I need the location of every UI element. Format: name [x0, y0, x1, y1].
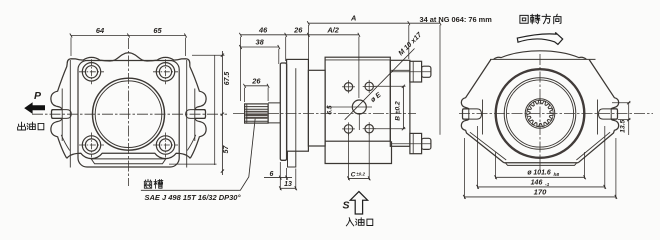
- dim ø101.6 ext: [464, 126, 616, 199]
- right view chamfer inner lines: [470, 132, 610, 160]
- right view ear depth lines: [483, 100, 598, 135]
- dim ø101.6 line: [496, 176, 585, 178]
- inlet S arrow: [350, 192, 367, 215]
- mid dims ext lines: [241, 25, 359, 102]
- svg-text:6.5: 6.5: [327, 105, 334, 114]
- gear body top cap line: [325, 59, 390, 61]
- right ear slot lines: [463, 109, 618, 119]
- svg-text:SAE J 498 15T 16/32 DP30°: SAE J 498 15T 16/32 DP30°: [145, 193, 242, 202]
- port circle: [352, 100, 366, 114]
- right view outline right: [578, 60, 618, 163]
- svg-text:6: 6: [270, 171, 274, 178]
- left view body square: [78, 61, 179, 168]
- left view flange right ear: [190, 67, 206, 159]
- right view h centerline: [459, 113, 653, 115]
- right view bottom pad: [505, 163, 577, 166]
- projection line right of left view: [214, 56, 216, 166]
- front housing lower step: [288, 151, 296, 167]
- svg-text:h8: h8: [554, 172, 560, 178]
- dim 38 line: [241, 46, 279, 48]
- shaft neck: [268, 103, 280, 123]
- neck section: [308, 70, 325, 146]
- svg-text:13.5: 13.5: [620, 119, 627, 132]
- spline bore teeth: [527, 100, 553, 126]
- port hole bottom-left: [344, 125, 352, 133]
- pilot circle thick: [496, 69, 585, 158]
- port hole top-left: [344, 83, 352, 91]
- bolt hole bottom-left: [82, 136, 100, 154]
- right view bottom flat: [504, 162, 578, 164]
- svg-text:P: P: [34, 90, 42, 102]
- dim 64/65 line: [71, 35, 186, 37]
- rear bolt bottom: [410, 133, 422, 153]
- left view flange left side + ear: [51, 64, 67, 159]
- svg-text:46: 46: [258, 25, 268, 34]
- svg-text:38: 38: [255, 38, 264, 47]
- inner circle 2: [506, 80, 573, 147]
- left view flange top edge: [67, 53, 190, 67]
- svg-text:57: 57: [223, 145, 230, 154]
- big pilot circle: [93, 78, 165, 150]
- dim 46/26/A2 line: [241, 34, 359, 36]
- suction port boss: [325, 141, 391, 163]
- svg-text:ø 101.6: ø 101.6: [527, 170, 551, 177]
- middle view centerline: [233, 112, 416, 114]
- rotation arrow: [517, 32, 562, 44]
- svg-text:65: 65: [153, 26, 162, 35]
- spline hub circle: [525, 99, 555, 129]
- svg-text:13: 13: [284, 181, 292, 188]
- svg-text:26: 26: [293, 25, 303, 34]
- bolt hole bottom-right: [156, 136, 174, 154]
- dim 146 line: [478, 186, 605, 188]
- dim 6 line: [264, 177, 292, 179]
- svg-text:C: C: [351, 171, 356, 178]
- left view ear slot right: [186, 110, 206, 119]
- A right ext: [408, 25, 410, 59]
- 6/13 ext lines: [280, 162, 296, 190]
- port hole bottom-right: [365, 125, 373, 133]
- svg-text:26: 26: [251, 76, 261, 85]
- right view shoulder line: [490, 58, 596, 60]
- M10 leader line: [345, 49, 415, 120]
- dim 13.5: [612, 103, 630, 135]
- dim 26 spline line: [245, 85, 269, 87]
- svg-text:34 at NG 064: 76 mm: 34 at NG 064: 76 mm: [420, 15, 493, 24]
- dim 64 ext lines: [70, 38, 72, 57]
- dim 67.5/57 line: [221, 51, 223, 175]
- bolt hole top-left: [82, 63, 100, 81]
- svg-text:B ±0.2: B ±0.2: [394, 101, 401, 121]
- gear body: [325, 57, 390, 141]
- left view ear slot left: [52, 110, 72, 119]
- front housing: [287, 59, 309, 151]
- right view top hump: [494, 51, 587, 60]
- front housing inner line: [295, 68, 297, 151]
- left view bottom pad plate: [91, 159, 166, 164]
- label 齒槽: [144, 179, 152, 188]
- port P arrow: [24, 102, 45, 114]
- rear cover top line: [390, 69, 410, 71]
- C ext lines: [349, 115, 370, 181]
- svg-text:67.5: 67.5: [224, 72, 231, 86]
- port circle h-line: [326, 106, 372, 108]
- dim 13 line: [280, 187, 296, 189]
- spline note underline + leader: [141, 116, 256, 191]
- 34 ext vertical: [439, 25, 441, 135]
- rear bolt top: [410, 61, 422, 82]
- left view horizontal centerline: [32, 113, 227, 115]
- left view inner chamfer lines: [61, 135, 196, 151]
- svg-text:64: 64: [96, 26, 104, 35]
- dim 170 line: [464, 196, 616, 198]
- svg-text:A: A: [350, 14, 356, 23]
- rear cover: [390, 60, 410, 146]
- svg-text:±0.2: ±0.2: [356, 172, 365, 177]
- dim C line: [349, 177, 370, 179]
- spline shaft: [245, 104, 269, 123]
- svg-text:146: 146: [531, 180, 543, 187]
- dim 67.5 ext lines: [192, 54, 225, 56]
- dim A line: [308, 22, 440, 24]
- inner circle 1: [504, 78, 576, 150]
- mounting flange plate: [280, 63, 286, 160]
- bolt hole top-right: [156, 63, 174, 81]
- right view outline left: [461, 60, 504, 163]
- svg-text:A/2: A/2: [326, 25, 339, 34]
- left view flange side faces: [62, 60, 195, 168]
- right view v centerline: [539, 54, 541, 172]
- label 入油口: [346, 218, 353, 226]
- port hole top-right: [365, 82, 373, 90]
- left view vertical centerline: [128, 38, 130, 186]
- dim B line: [402, 86, 404, 128]
- left view bottom edge: [67, 153, 190, 158]
- svg-text:S: S: [342, 200, 349, 212]
- B ext lines: [374, 86, 406, 128]
- label 回轉方向: [520, 15, 528, 23]
- svg-text:170: 170: [534, 188, 547, 197]
- label 出油口: [18, 122, 26, 130]
